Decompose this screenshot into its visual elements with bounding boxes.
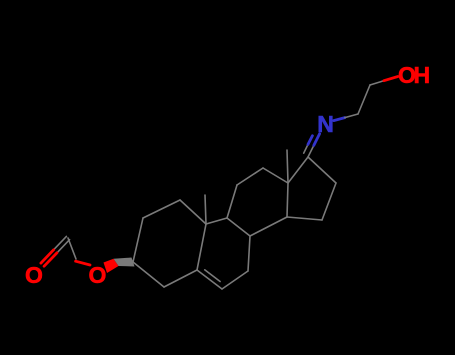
svg-text:O: O [25,262,43,288]
svg-text:N: N [317,111,334,137]
svg-text:H: H [414,62,431,88]
svg-text:O: O [89,262,107,288]
